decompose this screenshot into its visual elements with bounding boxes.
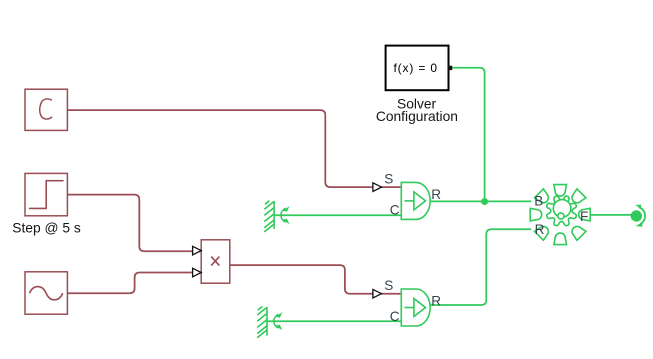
svg-text:Step @ 5 s: Step @ 5 s	[12, 220, 81, 235]
rotational reference ground G1	[264, 201, 289, 232]
rotational reference ground G2	[257, 306, 282, 337]
product block	[201, 240, 230, 283]
svg-text:R: R	[535, 222, 545, 237]
wire: product out to S of torque source U2	[230, 265, 401, 294]
svg-text:C: C	[390, 202, 400, 217]
terminator ball	[631, 210, 642, 221]
wire: Step to product in1	[68, 195, 202, 252]
constant block C1	[25, 89, 67, 130]
wire: Solver Configuration to junction	[452, 68, 485, 202]
wire: C block to S of torque source U1	[68, 110, 402, 187]
PS arrowhead into U1 S port	[373, 183, 382, 192]
sine wave source block	[25, 272, 67, 314]
wire: torque source U2 R to gear R port	[429, 229, 531, 305]
wire: torque source U1 R to gear B port	[429, 200, 531, 202]
torque source U1	[401, 182, 430, 219]
gear block body	[547, 196, 577, 226]
PS arrowhead into U2 S port	[373, 289, 382, 298]
svg-text:Configuration: Configuration	[376, 109, 458, 124]
product in2 arrowhead	[193, 268, 202, 277]
svg-text:R: R	[431, 293, 441, 308]
torque source U2	[401, 289, 430, 326]
gear petals ring	[530, 185, 590, 245]
ball rotation arc	[639, 207, 645, 224]
svg-text:C: C	[390, 309, 400, 324]
solver configuration block	[386, 46, 453, 91]
wire: gear F port to ball	[589, 214, 631, 216]
step source block	[25, 173, 67, 215]
svg-text:R: R	[431, 187, 441, 202]
svg-text:S: S	[384, 278, 393, 293]
wire: ground G2 to C of U2	[267, 320, 401, 322]
svg-text:F: F	[580, 209, 588, 224]
ball arc arrowheads	[635, 205, 641, 209]
junction node	[481, 198, 488, 205]
wire: Sine to product in2	[68, 273, 202, 294]
svg-text:B: B	[534, 194, 543, 209]
wire: ground G1 to C of U1	[274, 214, 401, 216]
svg-text:S: S	[384, 172, 393, 187]
svg-text:f(x) = 0: f(x) = 0	[393, 61, 437, 75]
product in1 arrowhead	[193, 246, 202, 255]
